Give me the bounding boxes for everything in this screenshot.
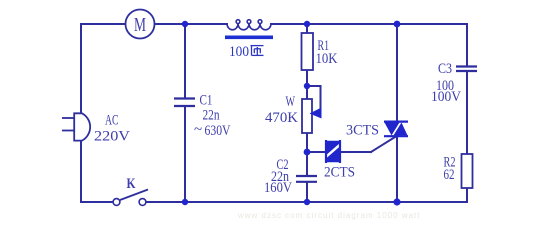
- wire inductor to right corner: [271, 23, 467, 25]
- wire top-left horizontal to motor: [81, 23, 126, 25]
- svg-text:100: 100: [229, 44, 249, 60]
- svg-text:3CTS: 3CTS: [346, 123, 379, 139]
- wire motor to inductor: [154, 23, 227, 25]
- AC plug P1: [62, 113, 90, 140]
- potentiometer W wiper arrow: [310, 108, 322, 119]
- svg-text:470K: 470K: [265, 110, 298, 126]
- wire switch to bottom right corner: [146, 201, 467, 203]
- wiper wire of W: [307, 86, 321, 111]
- wire bottom left to switch: [81, 201, 113, 203]
- svg-text:C1: C1: [200, 93, 213, 109]
- wire W to node: [306, 133, 308, 176]
- svg-text:C3: C3: [438, 61, 452, 77]
- wire R2 to bottom: [466, 188, 468, 202]
- node A junction between R1 and W: [304, 83, 310, 89]
- svg-text:AC: AC: [105, 113, 119, 129]
- wire right C3 to R2: [466, 71, 468, 154]
- svg-text:www dzsc com circuit diagram 1: www dzsc com circuit diagram 1000 watt: [237, 211, 421, 220]
- junction bottom of C1 branch: [182, 199, 188, 205]
- capacitor C1 plates: [174, 99, 195, 107]
- junction top of R1 branch: [304, 21, 310, 27]
- svg-text:630V: 630V: [205, 123, 231, 139]
- diac D1 2CTS symbol: [326, 140, 340, 163]
- wire R1 branch top: [306, 24, 308, 33]
- switch K contacts: [113, 190, 148, 206]
- capacitor C2 plates: [296, 176, 317, 182]
- motor M1 circle: [126, 10, 155, 39]
- junction top of C1 branch: [182, 21, 188, 27]
- junction bottom of triac branch: [393, 198, 400, 205]
- triac V1 3CTS symbol: [384, 122, 408, 137]
- wire C1 branch lower: [184, 107, 186, 202]
- capacitor C3 plates: [456, 67, 477, 72]
- svg-text:22n: 22n: [203, 108, 220, 124]
- wire left vertical: [80, 24, 82, 202]
- wire triac branch bottom: [396, 136, 398, 202]
- wire C1 branch upper: [184, 24, 186, 98]
- wire triac branch top: [396, 24, 398, 121]
- junction top of triac branch: [394, 21, 401, 28]
- svg-text:62: 62: [444, 167, 455, 183]
- svg-text:M: M: [134, 14, 146, 36]
- junction bottom of C2 branch: [304, 199, 310, 205]
- resistor R1 body: [302, 33, 314, 70]
- svg-text:W: W: [286, 94, 296, 110]
- svg-text:~: ~: [194, 122, 202, 138]
- potentiometer W body: [302, 99, 312, 133]
- wire right vertical upper: [466, 24, 468, 66]
- svg-text:100V: 100V: [431, 89, 461, 105]
- inductor L1 coil: [227, 20, 271, 30]
- inductor L1 core bar: [225, 36, 273, 40]
- inductor L1 value 100匝: [229, 44, 264, 60]
- svg-text:160V: 160V: [264, 180, 292, 196]
- wire diac to gate bend: [340, 151, 371, 153]
- switch K blade: [120, 190, 148, 201]
- wire C2 to bottom: [306, 182, 308, 202]
- svg-text:10K: 10K: [316, 51, 338, 67]
- svg-text:2CTS: 2CTS: [324, 165, 355, 181]
- wire gate diagonal: [371, 137, 395, 152]
- wire node to diac: [307, 151, 326, 153]
- node B junction below W: [304, 149, 311, 156]
- wire R1 to W: [306, 70, 308, 99]
- svg-text:K: K: [127, 176, 136, 192]
- svg-text:220V: 220V: [94, 129, 130, 145]
- resistor R2 body: [462, 154, 473, 188]
